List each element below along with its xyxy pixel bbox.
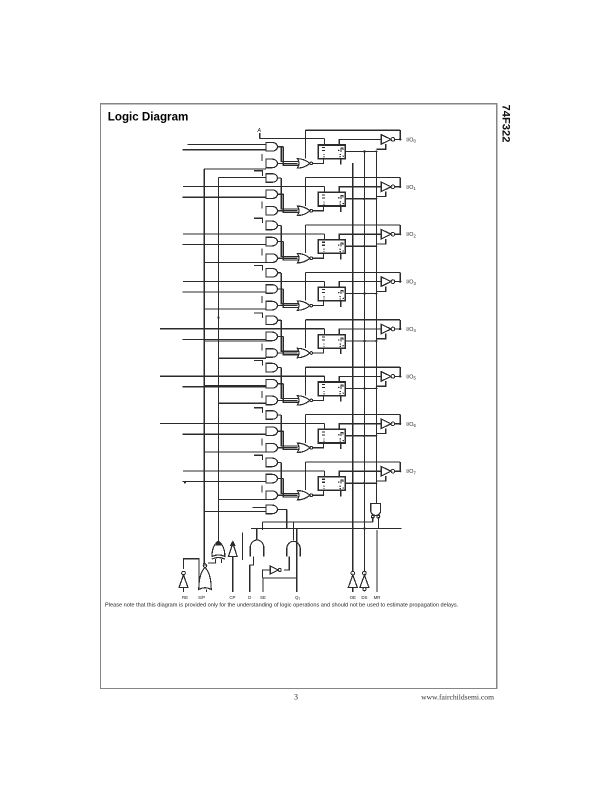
wire G5C output to OR	[278, 399, 298, 401]
wire B0 output to pad	[395, 138, 400, 140]
FF4 pin marks	[322, 336, 325, 338]
wire stage7 data line to FF	[183, 470, 324, 472]
wire I/O5 feedback drop to NOR	[305, 367, 307, 395]
wire G5C input hook	[261, 391, 263, 398]
wire I/O3 feedback line	[306, 271, 401, 273]
and gate G7B load	[266, 474, 278, 483]
and gate SE select	[287, 541, 300, 556]
wire Q7 collect line	[262, 521, 372, 523]
wire I/O3 feedback drop to NOR	[305, 272, 307, 300]
wire B2 enable from OE bus	[376, 239, 385, 244]
wire B0 enable from OE bus	[376, 144, 385, 149]
wire N3 output to FF3 D input	[313, 301, 324, 306]
wire B4 enable from OE bus	[376, 334, 385, 339]
wire G3A routed to OR input 1	[281, 273, 298, 304]
wire I/O5 feedback riser	[399, 367, 401, 376]
wire FF3 Q to output buffer	[339, 282, 381, 288]
FF0 pin marks	[322, 146, 325, 148]
wire stage1 data line to FF	[183, 186, 324, 188]
wire G4C input hook	[261, 344, 263, 351]
wire bus2 branch 1	[218, 197, 266, 199]
nor gate N6 data select	[297, 443, 310, 452]
buffer DS input inverting	[360, 575, 369, 588]
wire B5 output to pad	[395, 375, 400, 377]
flip-flop FF4	[318, 335, 345, 349]
wire SE label riser	[263, 557, 297, 593]
wire G6C input hook	[261, 438, 263, 445]
arrow marker on XOR apex	[216, 541, 220, 545]
wire B4 output to pad	[395, 328, 400, 330]
flip-flop FF3	[318, 287, 345, 301]
junction on left bus 2	[217, 317, 219, 319]
wire I/O7 feedback riser	[399, 462, 401, 471]
svg-text:I/O2: I/O2	[406, 232, 416, 238]
svg-text:Q7: Q7	[295, 595, 300, 601]
wire bus1 branch 5	[204, 451, 266, 453]
wire G8 output drop	[286, 509, 288, 528]
wire I/O3 feedback riser	[399, 272, 401, 281]
wire lower long line	[251, 528, 401, 530]
wire stage1 load input line from left	[183, 196, 267, 198]
node I/O6 junction	[399, 423, 401, 425]
wire stage7 load input line from left	[183, 481, 267, 483]
wire left select bus 2 top branch to stage1 AND	[218, 177, 266, 179]
nor gate N0 data select	[297, 159, 310, 168]
inverter SE	[270, 566, 278, 574]
wire G1B routed to OR input 3	[283, 194, 298, 212]
wire I/O1 feedback riser	[399, 178, 401, 187]
svg-text:I/O6: I/O6	[406, 422, 416, 428]
wire stage2 data line drop into FF top	[323, 234, 325, 239]
wire G5B output stub	[278, 383, 284, 385]
wire G7A routed to OR input 1	[281, 462, 298, 493]
wire FF0 Q to output buffer	[339, 139, 381, 145]
wire G6A input hook	[254, 408, 263, 413]
tri-state buffer B3	[381, 277, 391, 286]
wire stage4 data line drop into FF top	[323, 329, 325, 334]
svg-text:SE: SE	[260, 595, 266, 600]
wire stage6 data line to FF	[160, 423, 324, 425]
wire G4C output to OR	[278, 352, 298, 354]
wire G2B output stub	[278, 241, 284, 243]
and gate G7A shift	[266, 458, 278, 467]
wire left select bus 1 top branch to stage0 AND	[204, 168, 266, 170]
junction FF0 Q on OE bus	[375, 150, 377, 152]
wire FF5 Q to serial chain	[345, 387, 376, 389]
and gate G4A shift	[266, 316, 278, 325]
nand gate Q7 output	[371, 504, 381, 516]
wire S/P input stub	[206, 590, 208, 593]
wire FF2 Q to output buffer	[339, 234, 381, 240]
wire G5A output stub	[278, 367, 282, 369]
wire G0C input hook	[261, 154, 263, 161]
wire stage6 data line drop into FF top	[323, 424, 325, 429]
wire G0B routed to OR input 3	[283, 147, 298, 165]
svg-text:74F322: 74F322	[500, 105, 512, 143]
svg-text:I/O5: I/O5	[406, 374, 416, 380]
wire inverter input	[263, 570, 271, 578]
node I/O5 junction	[399, 375, 401, 377]
wire I/O7 feedback drop to NOR	[305, 462, 307, 490]
junction lower line DS bus	[363, 527, 365, 529]
node I/O1 junction	[399, 186, 401, 188]
wire G6B output stub	[278, 430, 284, 432]
flip-flop FF7	[318, 477, 345, 491]
page border frame	[101, 104, 497, 689]
wire N0 output to FF0 D input	[313, 159, 324, 164]
wire G7A input hook	[254, 455, 263, 460]
wire G0A routed to OR input 1	[281, 147, 298, 162]
wire FF4 clock stub	[340, 348, 342, 354]
junction FF7 Q on DS bus	[363, 482, 365, 484]
flip-flop FF5	[318, 382, 345, 396]
and gate G0C hold	[266, 159, 277, 168]
wire G4B output stub	[278, 335, 284, 337]
wire FF1 Q to serial chain	[345, 198, 376, 200]
junction FF3 Q on OE bus	[375, 293, 377, 295]
junction FF4 Q on OE bus	[375, 340, 377, 342]
wire FF3 Q to serial chain	[345, 293, 376, 295]
wire stage5 load input line from left	[183, 386, 267, 388]
wire FF7 Q to serial chain	[345, 482, 376, 484]
speckle mark	[184, 482, 186, 484]
svg-text:A: A	[256, 128, 261, 134]
wire B6 enable from OE bus	[376, 429, 385, 434]
buffer CP input	[228, 543, 237, 556]
wire G6A routed to OR input 1	[281, 415, 298, 446]
wire stage6 load input line from left	[183, 433, 267, 435]
wire FF2 Q to serial chain	[345, 245, 376, 247]
wire G1A output stub	[278, 177, 282, 179]
and gate G4B load	[266, 332, 278, 341]
wire I/O4 feedback riser	[399, 320, 401, 329]
wire G0C output to OR	[278, 162, 298, 164]
wire bus1 branch 6	[204, 511, 266, 513]
junction FF6 Q on DS bus	[363, 435, 365, 437]
and gate G4C hold	[266, 349, 277, 358]
wire I/O5 feedback line	[306, 366, 401, 368]
tri-state buffer B1	[381, 182, 391, 191]
and gate G2A shift	[266, 221, 277, 230]
svg-text:CP: CP	[229, 595, 235, 600]
junction FF1 Q on OE bus	[375, 198, 377, 200]
nor gate N1 data select	[297, 206, 310, 215]
xor gate mode	[212, 541, 225, 557]
wire B6 output to pad	[395, 423, 400, 425]
node I/O3 junction	[399, 280, 401, 282]
wire I/O0 feedback line	[306, 129, 401, 131]
wire mystery riser	[242, 533, 244, 560]
wire G3B routed to OR input 3	[283, 289, 298, 307]
wire stage3 data line to FF	[183, 280, 324, 282]
junction FF5 Q on DS bus	[363, 387, 365, 389]
svg-text:I/O1: I/O1	[406, 185, 416, 191]
nor gate S/P decode	[199, 568, 211, 590]
nor gate N2 data select	[297, 254, 310, 263]
wire I/O1 feedback line	[306, 177, 401, 179]
wire stage0 parallel-hold extra line	[187, 144, 266, 146]
wire FF5 Q to output buffer	[339, 376, 381, 382]
wire Q7 pin riser	[296, 529, 298, 593]
junction FF6 Q on OE bus	[375, 435, 377, 437]
wire RE input stub	[183, 588, 185, 593]
wire G2A output stub	[278, 224, 282, 226]
wire from input A down	[259, 133, 261, 139]
wire FF6 clock stub	[340, 443, 342, 449]
wire bus2 branch 2	[218, 357, 266, 359]
wire SE-AND output up	[293, 522, 295, 541]
node I/O7 junction	[399, 470, 401, 472]
and gate G2C hold	[266, 254, 278, 263]
wire FF3 clock stub	[340, 301, 342, 307]
wire G8 upper input	[252, 507, 266, 509]
wire G3C output to OR	[278, 305, 298, 307]
wire I/O7 feedback line	[306, 461, 401, 463]
wire N5 output to FF5 D input	[313, 396, 324, 401]
wire B1 output to pad	[395, 186, 400, 188]
node I/O2 junction	[399, 233, 401, 235]
wire stage5 data line drop into FF top	[323, 376, 325, 381]
wire B3 enable from OE bus	[376, 286, 385, 291]
flip-flop FF2	[318, 240, 345, 254]
wire bus2 branch 3	[218, 402, 266, 404]
junction FF0 Q on DS bus	[363, 150, 365, 152]
wire N4 output to FF4 D input	[313, 348, 324, 353]
flip-flop FF6	[318, 429, 345, 443]
wire N6 output to FF6 D input	[313, 443, 324, 448]
and gate G6A shift	[266, 411, 277, 420]
wire FF0 clock stub	[340, 159, 342, 165]
nor gate N3 data select	[297, 301, 310, 310]
flip-flop FF0	[318, 145, 345, 159]
svg-text:Logic Diagram: Logic Diagram	[108, 110, 189, 123]
wire RE route up	[184, 559, 200, 585]
svg-text:I/O4: I/O4	[406, 327, 416, 333]
wire FF5 clock stub	[340, 396, 342, 402]
tri-state buffer B6	[381, 419, 391, 428]
wire G7A output stub	[278, 461, 282, 463]
junction FF3 Q on DS bus	[363, 292, 365, 294]
wire NAND right output drop	[377, 517, 379, 529]
wire FF7 Q to output buffer	[339, 471, 381, 477]
node I/O4 junction	[399, 328, 401, 330]
wire Q7 collect drop left	[261, 522, 263, 530]
svg-text:D: D	[248, 595, 251, 600]
wire SE-AND left input from inverter	[284, 557, 289, 571]
wire G3A input hook	[254, 266, 263, 271]
wire OE bus vertical	[375, 151, 377, 503]
wire CP input riser	[232, 557, 234, 593]
wire G1C input hook	[261, 201, 263, 208]
wire FF2 clock stub	[340, 253, 342, 259]
wire G2B routed to OR input 3	[283, 242, 298, 260]
FF3 pin marks	[322, 289, 325, 291]
svg-text:OE: OE	[350, 595, 356, 600]
wire I/O4 feedback line	[306, 319, 401, 321]
tri-state buffer B4	[381, 324, 391, 333]
svg-text:I/O7: I/O7	[406, 469, 416, 475]
wire I/O6 feedback drop to NOR	[305, 415, 307, 443]
and gate G5C hold	[266, 396, 278, 405]
svg-text:3: 3	[294, 693, 298, 702]
wire FF7 clock stub	[340, 490, 342, 496]
wire bus1 branch 1	[204, 261, 266, 263]
and gate G0B load	[266, 143, 278, 152]
wire G2A input hook	[254, 218, 263, 223]
FF2 pin marks	[322, 241, 325, 243]
wire stage5 data line to FF	[160, 375, 324, 377]
wire stage4 load input line from left	[183, 338, 267, 340]
FF7 pin marks	[322, 478, 325, 480]
wire input A drop into FF0 top	[323, 139, 325, 145]
wire I/O2 feedback drop to NOR	[305, 225, 307, 253]
wire I/O4 feedback drop to NOR	[305, 320, 307, 348]
wire G5B routed to OR input 3	[283, 384, 298, 402]
svg-text:I/O0: I/O0	[406, 137, 416, 143]
and gate G3C hold	[266, 301, 278, 310]
wire OE stub	[352, 588, 354, 593]
wire D-AND output up	[256, 529, 258, 541]
and gate G1A shift	[266, 174, 278, 183]
and gate D select	[250, 540, 264, 557]
and gate G8 serial input gate	[266, 505, 278, 514]
wire B3 output to pad	[395, 281, 400, 283]
wire input A horizontal to FF0	[260, 138, 325, 140]
and gate G6C hold	[266, 444, 278, 453]
wire G5A routed to OR input 1	[281, 368, 298, 399]
wire stage3 data line drop into FF top	[323, 281, 325, 286]
wire G4A routed to OR input 1	[281, 320, 298, 351]
wire MR pin riser	[376, 530, 378, 592]
wire G3C input hook	[261, 296, 263, 303]
wire G1C output to OR	[278, 210, 298, 212]
node I/O0 junction	[399, 138, 401, 140]
tri-state buffer B2	[381, 230, 391, 239]
wire I/O0 feedback drop to NOR	[305, 130, 307, 158]
FF1 pin marks	[322, 194, 325, 196]
wire FF1 clock stub	[340, 206, 342, 212]
wire I/O6 feedback line	[306, 414, 401, 416]
junction FF2 Q on OE bus	[375, 245, 377, 247]
and gate G5A shift	[266, 363, 278, 372]
wire bus1 branch 3	[204, 340, 266, 342]
buffer RE input	[179, 575, 188, 588]
wire G7C output to OR	[278, 494, 298, 496]
wire B2 output to pad	[395, 233, 400, 235]
flip-flop FF1	[318, 192, 345, 206]
wire I/O2 feedback line	[306, 224, 401, 226]
wire B1 enable from OE bus	[376, 192, 385, 197]
wire G4B routed to OR input 3	[283, 336, 298, 354]
wire bus1 branch 4	[204, 384, 266, 386]
nor gate N7 data select	[297, 491, 310, 500]
wire G4A output stub	[278, 319, 282, 321]
wire FF6 Q to serial chain	[345, 435, 376, 437]
wire D-AND left input	[250, 557, 254, 593]
wire B5 enable from OE bus	[376, 381, 385, 386]
wire G2C input hook	[261, 249, 263, 256]
and gate G2B load	[266, 237, 277, 246]
nor gate N4 data select	[297, 348, 310, 357]
wire left select bus 2 vertical	[217, 178, 219, 542]
junction FF1 Q on DS bus	[363, 198, 365, 200]
wire FF6 Q to output buffer	[339, 424, 381, 430]
tri-state buffer B5	[381, 372, 391, 381]
wire G7C input hook	[261, 486, 263, 493]
wire FF4 Q to serial chain	[345, 340, 376, 342]
wire G8 output stub	[278, 508, 287, 510]
wire G6A output stub	[278, 414, 282, 416]
wire FF4 Q to output buffer	[339, 329, 381, 335]
wire stage7 data line drop into FF top	[323, 471, 325, 476]
wire G0B output stub	[278, 146, 284, 148]
wire FF1 Q to output buffer	[339, 187, 381, 193]
wire N7 output to FF7 D input	[313, 490, 324, 495]
wire G7B routed to OR input 3	[283, 479, 298, 497]
wire N2 output to FF2 D input	[313, 253, 324, 258]
wire stage3 load input line from left	[183, 291, 267, 293]
and gate G7C hold	[266, 491, 278, 500]
wire I/O1 feedback drop to NOR	[305, 178, 307, 206]
wire FF0 Q to serial chain	[345, 150, 376, 152]
svg-text:S/P: S/P	[198, 595, 205, 600]
FF5 pin marks	[322, 383, 325, 385]
wire NAND left output to Q7 line	[372, 517, 374, 522]
svg-text:MR: MR	[374, 595, 381, 600]
wire G1A input hook	[254, 171, 263, 176]
and gate G5B load	[266, 380, 278, 389]
junction FF4 Q on DS bus	[363, 340, 365, 342]
nor gate N5 data select	[297, 396, 310, 405]
junction FF5 Q on OE bus	[375, 387, 377, 389]
wire B7 output to pad	[395, 470, 400, 472]
wire bus2 branch 4	[218, 498, 266, 500]
svg-text:RE: RE	[182, 595, 188, 600]
wire G7B output stub	[278, 478, 284, 480]
wire G2A routed to OR input 1	[281, 225, 298, 256]
wire G1B output stub	[278, 193, 284, 195]
wire I/O2 feedback riser	[399, 225, 401, 234]
svg-text:I/O3: I/O3	[406, 280, 416, 286]
and gate G3B load	[266, 285, 277, 294]
wire CP bus vertical	[352, 163, 354, 572]
tri-state buffer B0	[381, 135, 391, 144]
wire G3B output stub	[278, 288, 284, 290]
wire B7 enable from OE bus	[376, 476, 385, 481]
and gate G1B load	[266, 190, 278, 199]
wire stage4 data line to FF	[160, 328, 324, 330]
wire bus1 branch 2	[204, 308, 266, 310]
svg-text:Please note that this diagram: Please note that this diagram is provide…	[105, 602, 459, 608]
wire DS bus vertical	[363, 151, 365, 572]
wire G1A routed to OR input 1	[281, 178, 298, 209]
arrow marker on CP buffer apex	[231, 541, 235, 545]
wire G3A output stub	[278, 272, 282, 274]
wire stage0 load input line from left	[183, 149, 267, 151]
wire stage2 data line to FF	[183, 233, 324, 235]
svg-text:www.fairchildsemi.com: www.fairchildsemi.com	[421, 693, 494, 702]
wire left select bus 1 vertical	[203, 169, 205, 564]
wire stage2 load input line from left	[183, 244, 267, 246]
wire G6B routed to OR input 3	[283, 431, 298, 449]
wire G5A input hook	[254, 360, 263, 365]
and gate G6B load	[266, 427, 278, 436]
and gate G1C hold	[266, 207, 278, 216]
wire stage1 data line drop into FF top	[323, 187, 325, 192]
wire G6C output to OR	[278, 447, 298, 449]
junction FF7 Q on OE bus	[375, 482, 377, 484]
junction FF2 Q on DS bus	[363, 245, 365, 247]
